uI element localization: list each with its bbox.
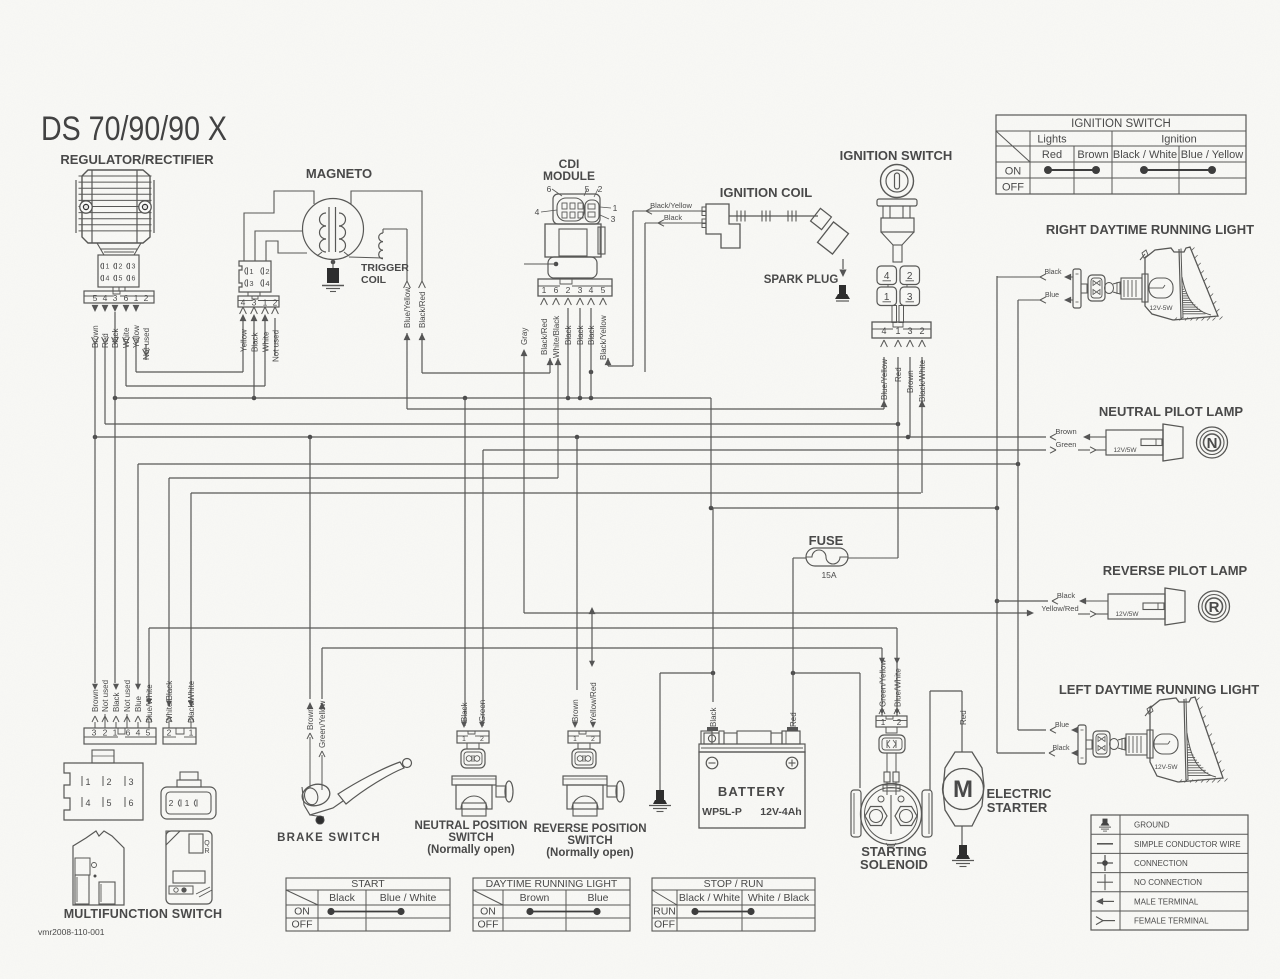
svg-text:LEFT DAYTIME RUNNING LIGHT: LEFT DAYTIME RUNNING LIGHT	[1059, 682, 1259, 697]
svg-text:6: 6	[128, 798, 133, 808]
svg-text:SPARK PLUG: SPARK PLUG	[764, 274, 839, 286]
svg-text:CONNECTION: CONNECTION	[1134, 859, 1188, 868]
svg-text:STARTER: STARTER	[987, 800, 1048, 815]
svg-text:4: 4	[265, 279, 269, 288]
svg-text:12V/5W: 12V/5W	[1113, 447, 1137, 454]
svg-text:FEMALE TERMINAL: FEMALE TERMINAL	[1134, 917, 1209, 926]
svg-text:5: 5	[146, 728, 151, 738]
svg-text:1: 1	[189, 728, 194, 738]
svg-text:WP5L-P: WP5L-P	[702, 806, 742, 818]
svg-text:1: 1	[106, 264, 110, 271]
svg-text:NEUTRAL POSITION: NEUTRAL POSITION	[415, 820, 528, 832]
svg-text:Brown: Brown	[91, 325, 100, 348]
svg-text:Black/White: Black/White	[918, 359, 927, 402]
svg-text:Black/Red: Black/Red	[540, 319, 549, 355]
svg-text:ON: ON	[294, 906, 310, 918]
svg-text:Not used: Not used	[272, 330, 281, 362]
svg-text:4: 4	[535, 207, 540, 217]
svg-text:2: 2	[167, 728, 172, 738]
svg-text:White / Black: White / Black	[748, 892, 810, 904]
svg-text:Blue: Blue	[1045, 292, 1059, 299]
svg-text:1: 1	[249, 267, 253, 276]
svg-text:Yellow: Yellow	[240, 329, 249, 352]
svg-text:FUSE: FUSE	[809, 533, 844, 548]
svg-text:Yellow/Red: Yellow/Red	[1041, 604, 1078, 613]
svg-text:REVERSE POSITION: REVERSE POSITION	[533, 823, 646, 835]
svg-text:3: 3	[249, 279, 253, 288]
svg-text:5: 5	[93, 293, 98, 303]
svg-text:1: 1	[895, 326, 900, 336]
svg-text:12V/5W: 12V/5W	[1115, 611, 1139, 618]
svg-text:2: 2	[566, 285, 571, 295]
svg-text:Black: Black	[251, 331, 260, 352]
svg-text:4: 4	[881, 326, 886, 336]
svg-text:3: 3	[907, 326, 912, 336]
svg-text:2: 2	[265, 267, 269, 276]
svg-text:1: 1	[85, 777, 90, 787]
svg-text:Q: Q	[204, 840, 210, 847]
svg-text:NEUTRAL PILOT LAMP: NEUTRAL PILOT LAMP	[1099, 404, 1244, 419]
svg-text:IGNITION SWITCH: IGNITION SWITCH	[1071, 118, 1171, 130]
svg-text:OFF: OFF	[292, 919, 313, 931]
svg-text:2: 2	[598, 184, 603, 194]
svg-text:OFF: OFF	[654, 919, 675, 931]
svg-text:1: 1	[462, 736, 466, 743]
svg-text:Brown: Brown	[1077, 149, 1108, 161]
svg-text:Red: Red	[959, 710, 968, 725]
svg-text:White: White	[262, 331, 271, 352]
svg-text:2: 2	[273, 298, 278, 308]
svg-text:SWITCH: SWITCH	[448, 832, 493, 844]
svg-text:ON: ON	[480, 906, 496, 918]
svg-text:Red: Red	[789, 712, 798, 727]
svg-text:3: 3	[128, 777, 133, 787]
svg-text:COIL: COIL	[361, 274, 387, 286]
svg-text:12V-5W: 12V-5W	[1154, 764, 1178, 771]
svg-text:Blue: Blue	[134, 695, 143, 712]
svg-text:2: 2	[169, 798, 174, 808]
svg-text:2: 2	[480, 736, 484, 743]
svg-text:Black: Black	[1044, 269, 1062, 276]
svg-text:6: 6	[554, 285, 559, 295]
svg-text:6: 6	[547, 184, 552, 194]
svg-text:OFF: OFF	[1002, 182, 1024, 194]
svg-text:1: 1	[185, 798, 190, 808]
svg-text:3: 3	[113, 293, 118, 303]
svg-text:Red: Red	[101, 333, 110, 348]
svg-text:2: 2	[103, 728, 108, 738]
svg-text:Not used: Not used	[101, 680, 110, 712]
svg-text:15A: 15A	[821, 570, 836, 580]
svg-text:5: 5	[119, 276, 123, 283]
svg-text:MAGNETO: MAGNETO	[306, 166, 372, 181]
svg-text:DAYTIME RUNNING LIGHT: DAYTIME RUNNING LIGHT	[486, 878, 618, 890]
svg-text:Lights: Lights	[1037, 134, 1067, 146]
svg-text:2: 2	[897, 718, 902, 727]
svg-text:4: 4	[241, 298, 246, 308]
svg-text:3: 3	[611, 214, 616, 224]
svg-text:Brown: Brown	[571, 699, 580, 722]
svg-text:Black: Black	[587, 324, 596, 345]
svg-text:12V-5W: 12V-5W	[1149, 305, 1173, 312]
svg-text:START: START	[351, 878, 385, 890]
svg-text:Black: Black	[460, 701, 469, 722]
svg-text:Blue: Blue	[587, 892, 608, 904]
svg-text:Black: Black	[1057, 591, 1076, 600]
svg-text:SOLENOID: SOLENOID	[860, 857, 928, 872]
svg-text:1: 1	[613, 203, 618, 213]
svg-text:Black/Red: Black/Red	[418, 292, 427, 328]
svg-text:2: 2	[144, 293, 149, 303]
svg-text:IGNITION COIL: IGNITION COIL	[720, 185, 813, 200]
svg-text:Green: Green	[478, 700, 487, 722]
svg-text:SIMPLE CONDUCTOR WIRE: SIMPLE CONDUCTOR WIRE	[1134, 840, 1241, 849]
svg-text:2: 2	[106, 777, 111, 787]
svg-text:4: 4	[589, 285, 594, 295]
svg-text:Red: Red	[1042, 149, 1062, 161]
svg-text:3: 3	[92, 728, 97, 738]
svg-text:RUN: RUN	[653, 906, 676, 918]
svg-text:3: 3	[252, 298, 257, 308]
svg-text:Black: Black	[1052, 745, 1070, 752]
svg-text:4: 4	[85, 798, 90, 808]
svg-text:1: 1	[134, 293, 139, 303]
svg-text:SWITCH: SWITCH	[567, 835, 612, 847]
svg-text:R: R	[204, 848, 209, 855]
svg-text:2: 2	[919, 326, 924, 336]
svg-text:Blue/White: Blue/White	[894, 668, 903, 707]
svg-text:Red: Red	[894, 367, 903, 382]
svg-text:1: 1	[573, 736, 577, 743]
svg-text:Black/Yellow: Black/Yellow	[599, 315, 608, 360]
svg-text:REGULATOR/RECTIFIER: REGULATOR/RECTIFIER	[60, 152, 214, 167]
svg-text:12V-4Ah: 12V-4Ah	[760, 806, 801, 818]
svg-text:Black: Black	[329, 892, 355, 904]
svg-text:3: 3	[132, 264, 136, 271]
svg-text:Black/Yellow: Black/Yellow	[650, 201, 692, 210]
svg-text:Black: Black	[564, 324, 573, 345]
svg-text:OFF: OFF	[478, 919, 499, 931]
svg-text:Blue / Yellow: Blue / Yellow	[1181, 149, 1243, 161]
svg-text:BRAKE SWITCH: BRAKE SWITCH	[277, 832, 381, 844]
svg-text:MULTIFUNCTION SWITCH: MULTIFUNCTION SWITCH	[64, 907, 223, 921]
svg-text:Black: Black	[576, 324, 585, 345]
svg-text:Brown: Brown	[520, 892, 550, 904]
svg-text:1: 1	[881, 718, 886, 727]
svg-text:Blue: Blue	[1055, 722, 1069, 729]
svg-text:1: 1	[263, 298, 268, 308]
svg-text:(Normally open): (Normally open)	[546, 847, 634, 859]
svg-text:TRIGGER: TRIGGER	[361, 262, 409, 274]
svg-text:3: 3	[578, 285, 583, 295]
svg-text:GROUND: GROUND	[1134, 821, 1170, 830]
svg-text:Blue/Yellow: Blue/Yellow	[880, 359, 889, 400]
svg-text:Yellow/Red: Yellow/Red	[589, 682, 598, 722]
svg-text:ELECTRIC: ELECTRIC	[987, 786, 1053, 801]
svg-text:vmr2008-110-001: vmr2008-110-001	[38, 927, 105, 937]
svg-text:Brown: Brown	[1055, 427, 1076, 436]
svg-text:2: 2	[591, 736, 595, 743]
svg-text:STOP / RUN: STOP / RUN	[704, 878, 764, 890]
svg-text:Black / White: Black / White	[679, 892, 740, 904]
svg-text:4: 4	[136, 728, 141, 738]
svg-text:Brown: Brown	[91, 689, 100, 712]
svg-text:ON: ON	[1005, 166, 1022, 178]
svg-text:Blue / White: Blue / White	[380, 892, 437, 904]
svg-text:RIGHT DAYTIME RUNNING LIGHT: RIGHT DAYTIME RUNNING LIGHT	[1046, 222, 1254, 237]
svg-text:4: 4	[106, 276, 110, 283]
svg-text:Not used: Not used	[123, 680, 132, 712]
svg-text:6: 6	[124, 293, 129, 303]
svg-text:MODULE: MODULE	[543, 169, 595, 183]
svg-text:BATTERY: BATTERY	[718, 784, 786, 799]
svg-text:4: 4	[103, 293, 108, 303]
svg-text:2: 2	[119, 264, 123, 271]
svg-text:Black: Black	[112, 691, 121, 712]
svg-text:Green/Yellow: Green/Yellow	[879, 659, 888, 707]
svg-text:Gray: Gray	[520, 328, 529, 345]
svg-text:Green: Green	[1056, 440, 1077, 449]
svg-text:MALE TERMINAL: MALE TERMINAL	[1134, 897, 1199, 906]
svg-text:1: 1	[542, 285, 547, 295]
svg-text:Black: Black	[664, 213, 683, 222]
svg-text:5: 5	[106, 798, 111, 808]
svg-text:NO CONNECTION: NO CONNECTION	[1134, 878, 1202, 887]
svg-text:DS 70/90/90 X: DS 70/90/90 X	[41, 110, 227, 148]
svg-text:Green/Yellow: Green/Yellow	[318, 700, 327, 748]
svg-text:Black / White: Black / White	[1113, 149, 1177, 161]
svg-text:Ignition: Ignition	[1161, 134, 1196, 146]
svg-text:IGNITION SWITCH: IGNITION SWITCH	[840, 148, 953, 163]
svg-text:White/Black: White/Black	[552, 315, 561, 358]
svg-text:6: 6	[126, 728, 131, 738]
svg-text:R: R	[1209, 599, 1220, 616]
svg-text:6: 6	[132, 276, 136, 283]
svg-text:1: 1	[113, 728, 118, 738]
svg-text:M: M	[953, 776, 973, 803]
svg-text:5: 5	[601, 285, 606, 295]
svg-text:Blue/Yellow: Blue/Yellow	[403, 287, 412, 328]
svg-text:(Normally open): (Normally open)	[427, 844, 515, 856]
svg-text:Brown: Brown	[306, 707, 315, 730]
svg-text:REVERSE PILOT LAMP: REVERSE PILOT LAMP	[1103, 563, 1248, 578]
svg-text:Brown: Brown	[906, 370, 915, 393]
svg-text:N: N	[1207, 435, 1218, 452]
svg-text:Yellow: Yellow	[132, 325, 141, 348]
svg-text:Black: Black	[709, 706, 718, 727]
